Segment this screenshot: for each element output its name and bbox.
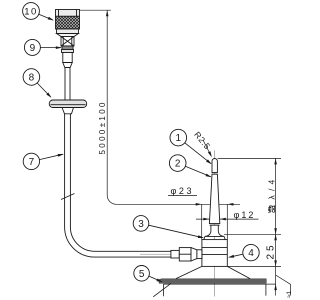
svg-text:2: 2 — [175, 159, 181, 170]
svg-text:λ/4: λ/4 — [266, 176, 276, 200]
svg-text:≈1: ≈1 — [286, 290, 293, 298]
svg-text:9: 9 — [30, 43, 36, 54]
svg-text:φ12: φ12 — [234, 210, 256, 220]
svg-text:10: 10 — [24, 7, 38, 18]
svg-text:3: 3 — [138, 219, 144, 230]
svg-text:25: 25 — [265, 242, 276, 259]
svg-text:1: 1 — [176, 133, 182, 144]
svg-text:7: 7 — [29, 157, 35, 168]
svg-text:5: 5 — [139, 269, 145, 280]
svg-text:φ23: φ23 — [171, 186, 195, 196]
svg-text:4: 4 — [248, 248, 254, 259]
svg-text:R2.5: R2.5 — [192, 130, 212, 152]
svg-text:8: 8 — [29, 73, 35, 84]
svg-text:5000±100: 5000±100 — [98, 100, 107, 154]
